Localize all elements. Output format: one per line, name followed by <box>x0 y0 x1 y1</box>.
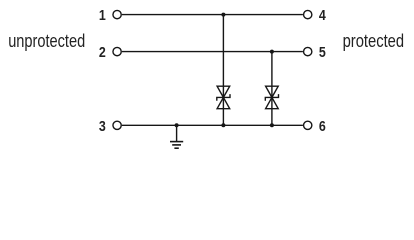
wire branch 1 (vertical, rail 1 to rail 3) <box>222 15 224 126</box>
wire rail 3 (terminal 3 to terminal 6) <box>122 124 303 126</box>
terminal circle 3 <box>113 121 121 129</box>
svg-text:2: 2 <box>99 44 106 61</box>
junction dot rail2/branch2 <box>270 50 274 54</box>
suppressor diode D1 bottom triangle <box>217 97 230 108</box>
svg-text:1: 1 <box>99 7 106 24</box>
junction dot rail3/branch2 <box>270 123 274 127</box>
terminal circle 1 <box>113 10 121 18</box>
suppressor diode D2 top triangle <box>266 86 279 97</box>
ground symbol bar 1 <box>170 141 183 143</box>
ground stem wire <box>176 125 178 141</box>
terminal circle 5 <box>304 47 312 55</box>
suppressor diode D2 center bar with bent tips <box>265 94 278 101</box>
suppressor diode D1 center bar with bent tips <box>217 94 230 101</box>
terminal circle 4 <box>304 10 312 18</box>
svg-text:5: 5 <box>319 44 326 61</box>
terminal circle 2 <box>113 47 121 55</box>
junction dot rail3/branch1 <box>221 123 225 127</box>
svg-text:protected: protected <box>343 31 405 51</box>
suppressor diode D2 bottom triangle <box>266 97 279 108</box>
svg-text:unprotected: unprotected <box>8 31 85 51</box>
ground symbol bar 2 <box>172 144 181 146</box>
junction dot rail3/ground <box>175 123 179 127</box>
junction dot rail1/branch1 <box>221 13 225 17</box>
suppressor diode D1 top triangle <box>217 86 230 97</box>
wire rail 1 (terminal 1 to terminal 4) <box>122 14 303 16</box>
svg-text:3: 3 <box>99 118 106 135</box>
terminal circle 6 <box>304 121 312 129</box>
wire branch 2 (vertical, rail 2 to rail 3) <box>271 52 273 126</box>
svg-text:4: 4 <box>319 7 326 24</box>
wire rail 2 (terminal 2 to terminal 5) <box>122 51 303 53</box>
svg-text:6: 6 <box>319 118 326 135</box>
ground symbol bar 3 <box>174 147 178 149</box>
